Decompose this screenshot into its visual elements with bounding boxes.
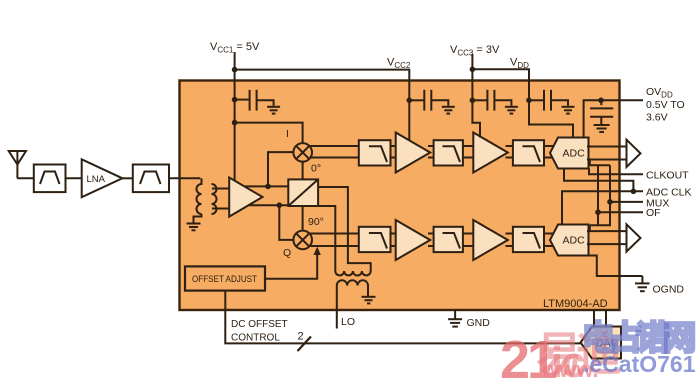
wire antenna to BPF1 (17, 177, 34, 179)
wire VCC1 to VCC2 rail horizontal (235, 70, 410, 101)
wire ADC2 to OGND (587, 256, 642, 277)
svg-text:GND: GND (467, 317, 491, 329)
wire LPF5 to amp A4 (463, 234, 474, 247)
wire DAC outputs to module (594, 310, 606, 327)
wire A1 to LPF2 (428, 146, 435, 158)
wire splitter LO upper feed to balun (318, 187, 371, 271)
svg-text:I: I (286, 128, 289, 140)
DAC U5 (581, 327, 622, 359)
node A junction dot upper output (265, 184, 271, 190)
wire VCC1 rail vertical (234, 52, 236, 181)
mixer I (293, 143, 312, 162)
ground GND symbol bottom (448, 310, 462, 327)
lowpass filter LPF3 I (513, 140, 544, 165)
wire LPF4 to amp A3 (391, 234, 398, 247)
svg-text:LO: LO (341, 316, 355, 328)
wire preamp lower output to splitter (249, 204, 288, 206)
lowpass filter LPF5 Q (434, 227, 463, 252)
amplifier LNA (82, 159, 123, 197)
wire splitter to mixer Q 90 degree (302, 206, 304, 231)
junction VDD cap tap (526, 98, 532, 104)
svg-text:VCC3 = 3V: VCC3 = 3V (450, 44, 500, 58)
wire LO pin (336, 286, 338, 329)
op-amp U1 preamp (229, 178, 262, 217)
amplifier A1 I (396, 133, 431, 173)
svg-text:VCC2: VCC2 (387, 57, 411, 71)
capacitor C5 OVDD bypass vertical with ground (590, 100, 613, 132)
capacitor C4 bypass with ground (529, 90, 575, 114)
svg-text:2: 2 (298, 331, 304, 343)
amplifier A3 Q (396, 220, 431, 260)
svg-text:0°: 0° (311, 163, 321, 175)
wire VDD rail to ADC1 (529, 100, 573, 137)
ground under T1 primary (187, 224, 201, 231)
junction VCC3 top (470, 67, 476, 73)
svg-text:ADC: ADC (563, 235, 586, 247)
wire BPF2 into module to transformer T1 (169, 177, 200, 179)
junction OF (595, 209, 601, 215)
svg-text:CLKOUT: CLKOUT (646, 169, 689, 181)
wire VCC2 rail into amp A1 (408, 100, 410, 140)
capacitor C3 bypass with ground (472, 90, 518, 114)
wire CLKOUT from ADC1 (589, 169, 643, 175)
arrowhead offset inject (314, 247, 321, 255)
wire node A up to mixer I RF input (268, 152, 294, 186)
svg-text:Q: Q (283, 247, 291, 259)
svg-text:ADC: ADC (563, 148, 586, 160)
watermark www pink (542, 359, 599, 380)
junction VCC2 cap tap (407, 98, 413, 104)
wire ADC1 data bus pair (587, 147, 627, 160)
junction OVDD (598, 98, 604, 104)
watermark blue url (583, 353, 696, 376)
junction VCC1 cap tap (232, 97, 238, 103)
wire splitter LO lower feed to balun (318, 206, 335, 271)
junction VCC1 top (232, 67, 238, 73)
amplifier A4 Q (473, 220, 508, 260)
wire VCC3 rail vertical (472, 54, 480, 138)
wire ADC1 control tap drop (590, 160, 610, 166)
svg-text:DC OFFSET: DC OFFSET (231, 319, 288, 330)
ground balun symbol (362, 297, 376, 304)
wire VCC1 branch to mixer I (235, 123, 303, 144)
svg-text:VCC1 = 5V: VCC1 = 5V (210, 41, 260, 55)
watermark red chars (536, 331, 616, 377)
wire ADC CLK loop to ADC1 (564, 169, 633, 192)
svg-text:OFFSET ADJUST: OFFSET ADJUST (192, 274, 257, 284)
wire A2 to LPF3 (506, 146, 515, 158)
wire mixer Q to LPF4 differential pair (310, 234, 359, 247)
wire mixer I to splitter 0 degree (302, 161, 304, 180)
wire balun primary to ground (367, 286, 369, 297)
lowpass filter LPF4 Q (359, 227, 391, 252)
watermark blue chars (582, 321, 690, 354)
svg-text:OF: OF (646, 207, 661, 219)
svg-text:LTM9004-AD: LTM9004-AD (543, 298, 608, 310)
capacitor C2 bypass with ground (409, 90, 455, 114)
wire A4 to LPF6 (506, 234, 515, 247)
balun L2 primary winding (337, 280, 368, 285)
wire OVDD internal rail to ADC1 (584, 100, 601, 137)
wire BPF1 to LNA (66, 177, 82, 179)
wire OF pin line (598, 211, 643, 213)
svg-text:VDD: VDD (510, 57, 529, 71)
svg-text:90°: 90° (308, 216, 324, 228)
svg-text:CONTROL: CONTROL (231, 333, 280, 344)
wire OFFSET ADJUST to Q path with arrow (265, 254, 317, 279)
mixer Q (293, 231, 312, 250)
wire VCC3 to VDD rail horizontal (472, 69, 529, 100)
wire LPF6 to ADC2 (544, 234, 553, 247)
wire ADC CLK pin line (562, 191, 643, 224)
wire A3 to LPF5 (428, 234, 435, 247)
svg-text:LNA: LNA (87, 174, 106, 185)
wire ADC2 control tap rise (589, 225, 591, 231)
wire mixer I to LPF1 differential pair (310, 146, 359, 158)
node B junction dot lower output (277, 202, 283, 208)
svg-text:OVDD: OVDD (646, 86, 673, 100)
antenna ANT (9, 151, 26, 178)
wire OVDD pin line (601, 99, 643, 101)
wire MUX rail (590, 165, 610, 225)
wire node B down to mixer Q RF input (279, 205, 294, 240)
wire LNA to BPF2 (122, 177, 132, 179)
transformer T1 secondary winding (212, 184, 230, 214)
lowpass filter LPF6 Q (513, 227, 544, 252)
bus arrow D1 output head (627, 140, 641, 167)
junction VCC1 mixer branch (232, 120, 238, 126)
watermark 21 red (500, 333, 554, 380)
wire LPF3 to ADC1 (544, 146, 553, 158)
junction VCC3 cap tap (470, 98, 476, 104)
ADC U3 top (550, 138, 589, 169)
module LTM9004-AD body (180, 81, 620, 311)
bus arrow D2 output head (627, 224, 641, 251)
lowpass filter LPF1 I (359, 140, 391, 165)
svg-text:3.6V: 3.6V (646, 112, 668, 124)
lowpass filter LPF2 I (434, 140, 463, 165)
ground OGND symbol (635, 276, 650, 291)
bus slash 2 wires (298, 337, 312, 352)
amplifier A2 I (473, 133, 508, 173)
junction ADC CLK (631, 189, 637, 195)
wire LPF1 to amp A1 (391, 146, 398, 158)
ADC U4 bottom (550, 225, 589, 256)
bandpass filter BPF1 (34, 165, 66, 193)
svg-text:0.5V TO: 0.5V TO (646, 99, 685, 111)
watermark ic red (551, 341, 584, 380)
wire MUX pin line (610, 201, 643, 203)
svg-text:OGND: OGND (653, 284, 685, 296)
phase splitter U2 (288, 179, 318, 206)
wire preamp upper output to splitter (245, 185, 288, 187)
wire ADC2 data bus pair (587, 231, 627, 244)
wire LPF2 to amp A2 (463, 146, 474, 158)
transformer T1 primary winding (194, 178, 202, 223)
junction MUX (607, 199, 613, 205)
balun L1 secondary winding (335, 271, 370, 276)
capacitor C1 bypass with ground (235, 90, 281, 114)
bandpass filter BPF2 (133, 165, 169, 193)
wire DC OFFSET CONTROL (225, 291, 580, 344)
block OFFSET ADJUST (185, 266, 265, 290)
wire OF rail (597, 165, 599, 225)
